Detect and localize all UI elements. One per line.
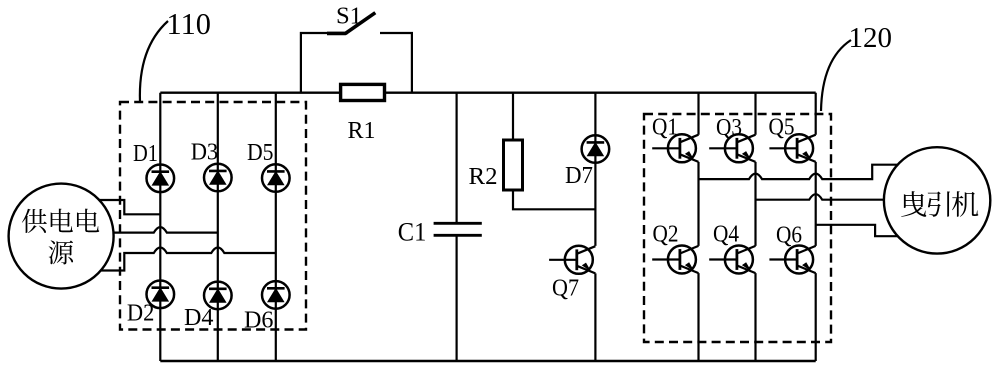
svg-text:C1: C1 — [398, 218, 427, 247]
svg-text:S1: S1 — [336, 2, 362, 29]
switch S1 — [301, 13, 412, 93]
diode D3 — [204, 164, 232, 192]
wire inverter column 3 — [815, 93, 817, 361]
wire top bus — [160, 91, 815, 93]
label 120 — [821, 23, 892, 111]
wire motor phase 1 (hops over col2,col3) — [699, 165, 898, 179]
diode D5 — [262, 164, 290, 192]
resistor R1 — [341, 84, 385, 100]
wire rectifier column 3 — [275, 93, 277, 361]
svg-text:D3: D3 — [191, 140, 219, 166]
diode D1 — [147, 165, 175, 193]
transistor Q2 — [652, 246, 698, 274]
capacitor C1 — [434, 93, 482, 361]
svg-text:R1: R1 — [348, 118, 376, 144]
dashed box 110 (rectifier) — [120, 102, 306, 330]
wire inverter column 2 — [754, 93, 756, 361]
transistor Q5 — [769, 134, 815, 162]
diode D4 — [204, 282, 232, 310]
svg-text:D4: D4 — [184, 305, 214, 331]
wire bottom bus — [160, 360, 815, 362]
diode D6 — [262, 281, 290, 309]
wire inverter column 1 — [697, 93, 699, 361]
dashed box 120 (inverter) — [644, 114, 831, 342]
svg-text:D7: D7 — [565, 163, 593, 189]
wire phase B (hop over col1) — [114, 227, 218, 233]
svg-text:110: 110 — [167, 7, 212, 41]
diode D2 — [147, 281, 175, 309]
wire rectifier column 2 — [217, 93, 219, 361]
svg-text:D2: D2 — [127, 301, 154, 327]
svg-text:Q4: Q4 — [713, 222, 739, 248]
svg-text:Q5: Q5 — [769, 115, 795, 141]
svg-text:R2: R2 — [469, 163, 498, 190]
svg-text:D5: D5 — [247, 140, 274, 166]
svg-text:Q6: Q6 — [776, 223, 802, 249]
svg-text:D6: D6 — [244, 307, 274, 333]
diode D7 — [582, 135, 610, 163]
transistor Q1 — [652, 134, 698, 162]
motor circle 曳引机 — [884, 147, 990, 253]
transistor Q7 — [549, 246, 595, 274]
resistor R2 — [504, 93, 596, 210]
svg-text:120: 120 — [849, 23, 893, 54]
wire rectifier column 1 — [159, 93, 161, 361]
wire motor phase 2 (hop over col3) — [756, 194, 885, 200]
wire Q7 emitter to bottom bus — [594, 273, 596, 361]
power source circle 供电电源 — [9, 184, 114, 289]
transistor Q6 — [769, 246, 815, 274]
transistor Q3 — [709, 134, 755, 162]
wire D7 branch — [594, 93, 596, 246]
label 110 — [140, 7, 211, 102]
svg-text:Q2: Q2 — [653, 222, 679, 248]
wire phase A — [99, 200, 160, 214]
svg-text:Q3: Q3 — [716, 115, 742, 141]
svg-text:Q1: Q1 — [652, 115, 678, 141]
transistor Q4 — [709, 246, 755, 274]
wire phase C (hops over col1,col2) — [101, 248, 276, 271]
svg-text:D1: D1 — [133, 141, 158, 167]
svg-text:Q7: Q7 — [552, 275, 579, 301]
wire motor phase 3 — [816, 225, 898, 236]
